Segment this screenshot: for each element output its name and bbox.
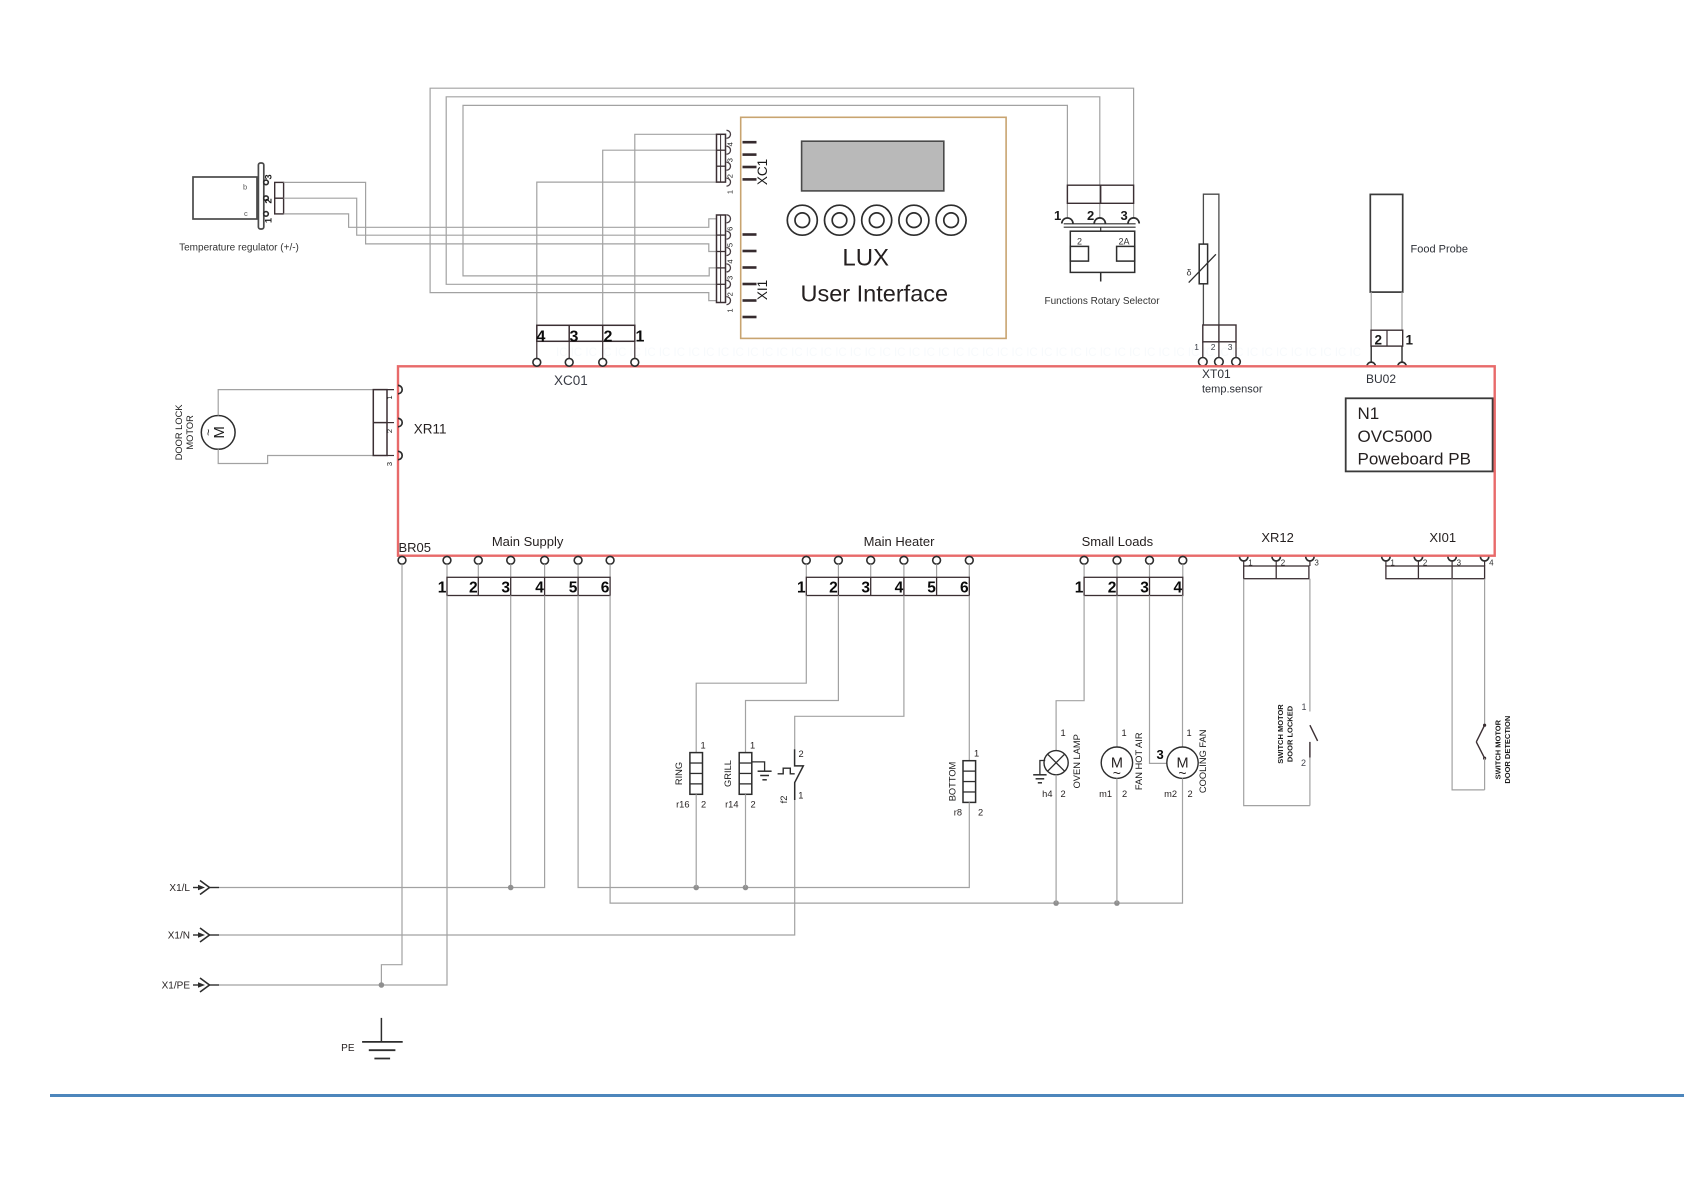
XI1 mating pin dash 4 (743, 283, 757, 286)
svg-text:3: 3 (1228, 342, 1233, 352)
svg-text:6: 6 (601, 579, 610, 596)
svg-text:FAN HOT AIR: FAN HOT AIR (1134, 732, 1144, 790)
XC01 pin 1 (631, 358, 639, 366)
svg-text:X1/L: X1/L (169, 883, 190, 894)
svg-text:XC01: XC01 (554, 373, 588, 388)
svg-text:4: 4 (535, 579, 544, 596)
wire X1/L to Main Supply pins 3,4 (219, 596, 545, 888)
XC1 pin 1 (726, 178, 735, 194)
Main Supply pin 3 stub (510, 564, 512, 577)
rotary selector pin 3 (1121, 208, 1140, 224)
food probe body (1370, 194, 1402, 292)
SWITCH MOTOR DOOR DETECTION caption (1494, 716, 1513, 784)
door lock motor M (201, 416, 235, 450)
XC01 pin 2 (599, 358, 607, 366)
fan hot air motor m1 (1101, 747, 1132, 781)
LUX button 1 (787, 205, 817, 235)
junction h4 neutral (1053, 900, 1059, 906)
svg-text:1: 1 (636, 329, 645, 346)
XI01 pin 4 (1480, 557, 1494, 568)
svg-text:1: 1 (438, 579, 447, 596)
svg-text:5: 5 (927, 579, 936, 596)
svg-text:5: 5 (726, 243, 735, 247)
svg-text:3: 3 (726, 276, 735, 280)
svg-text:6: 6 (960, 579, 969, 596)
door lock motor caption (174, 404, 195, 461)
XC01 pin 4 stub (536, 341, 538, 358)
svg-text:BU02: BU02 (1366, 372, 1396, 386)
wire XR12 pin1 down (1244, 579, 1310, 806)
XI1 pin 4 (726, 248, 735, 264)
Main Supply pin 1 (443, 556, 451, 564)
thermistor element (1187, 244, 1216, 284)
XT01 pin 3 (1232, 358, 1241, 367)
svg-text:2: 2 (1122, 789, 1127, 799)
svg-text:1: 1 (701, 741, 706, 751)
connector BU02 block (1371, 330, 1414, 347)
wire Main Heater pin1 to RING r16 (696, 596, 806, 753)
wire loop rotary-selector pin1 to XI1 pin3 (463, 105, 1067, 276)
svg-text:Main Supply: Main Supply (492, 534, 564, 549)
XC1 pin 2 (726, 162, 735, 178)
XR12 pin 2 (1272, 557, 1286, 568)
rotary selector pin 2 (1087, 208, 1105, 224)
wire Main Supply pin5 to heater returns (578, 596, 969, 888)
wire XI01 pin3 down (1452, 579, 1485, 790)
svg-text:3: 3 (264, 174, 275, 179)
N1 nameplate (1346, 398, 1493, 471)
switch motor door locked (1310, 725, 1318, 757)
wire Small Loads pin3 to m2 aux (1150, 596, 1167, 764)
svg-text:Temperature regulator (+/-): Temperature regulator (+/-) (179, 243, 299, 254)
Main Supply pin 5 (574, 556, 582, 564)
Small Loads pin 2 stub (1116, 564, 1118, 577)
wire Small Loads pin2 to fan motor m1 (1116, 596, 1118, 748)
temperature regulator pin 1 (264, 212, 275, 224)
rotary selector pin 1 (1054, 208, 1073, 224)
Small Loads terminal block (1084, 577, 1183, 595)
XC01 pin 3 stub (568, 341, 570, 358)
XI1 mating pin dash 6 (743, 316, 757, 319)
Main Heater pin 6 stub (968, 564, 970, 577)
XI1 pin 3 (726, 264, 735, 280)
temperature regulator pin 2 (264, 196, 275, 204)
svg-text:5: 5 (569, 579, 578, 596)
switch motor door detection (1476, 724, 1486, 760)
XI01 pin 2 stub (1417, 561, 1419, 566)
wire XC01 pin1 to XC1 pin4 (635, 134, 717, 325)
svg-text:3: 3 (861, 579, 870, 596)
Main Heater pin 5 (933, 556, 941, 564)
svg-text:2A: 2A (1119, 236, 1130, 246)
XI1 pin 1 (726, 297, 735, 313)
temp sensor body wires (1203, 194, 1219, 325)
powerboard N1 outline (398, 366, 1495, 555)
thermal cutoff f2 (778, 749, 804, 800)
XC01 pin 1 stub (634, 341, 636, 358)
svg-text:X1/N: X1/N (168, 931, 190, 942)
Main Supply pin 4 (541, 556, 549, 564)
svg-text:2: 2 (978, 808, 983, 818)
svg-text:m2: m2 (1164, 789, 1177, 799)
svg-text:User Interface: User Interface (801, 281, 949, 307)
wire Main Supply pin3 drop (510, 596, 512, 888)
wire loop rotary-selector pin3 to XI1 pin1 (430, 88, 1134, 300)
svg-text:2: 2 (1211, 342, 1216, 352)
wire Small Loads pin4 to cooling fan m2 (1182, 596, 1184, 748)
junction PE BR05 (379, 982, 385, 988)
svg-text:Food Probe: Food Probe (1411, 244, 1468, 256)
XC01 pin 4 (533, 358, 541, 366)
heater element GRILL r14 (739, 753, 752, 795)
svg-text:c: c (244, 209, 248, 218)
junction r14 return (743, 885, 749, 891)
Main Heater pin 3 (867, 556, 875, 564)
svg-text:2: 2 (1301, 758, 1306, 768)
svg-text:r14: r14 (725, 800, 738, 810)
wire XC01 pin2 to XC1 pin3 (603, 150, 717, 325)
LUX button 4 (899, 205, 929, 235)
wire switch to bottom link (1309, 758, 1311, 806)
Main Heater pin 4 stub (903, 564, 905, 577)
svg-text:COOLING FAN: COOLING FAN (1198, 730, 1208, 794)
Main Heater pin 2 stub (837, 564, 839, 577)
connector XT01 block (1194, 325, 1236, 358)
Small Loads pin 4 stub (1182, 564, 1184, 577)
Main Supply pin 2 (474, 556, 482, 564)
XR12 pin 3 (1306, 557, 1320, 568)
wire door lock motor to XR11 pin1 (218, 390, 394, 416)
svg-text:BR05: BR05 (399, 540, 432, 555)
Small Loads pin 1 stub (1083, 564, 1085, 577)
svg-text:RING: RING (674, 762, 684, 785)
wire Main Heater pin6 to BOTTOM r8 (968, 596, 970, 761)
XI1 mating pin dash 3 (743, 266, 757, 269)
BU02 pin 2 (1367, 362, 1375, 366)
XI1 mating pin dash 1 (743, 233, 757, 236)
connector XR11 block (373, 390, 394, 456)
svg-text:DOOR LOCKED: DOOR LOCKED (1286, 705, 1295, 762)
wire temp-reg pin2 to XI1 pin5 (284, 198, 717, 235)
Main Supply pin 2 stub (477, 564, 479, 577)
svg-text:OVEN LAMP: OVEN LAMP (1072, 734, 1082, 788)
wire X1/N to f2 (219, 800, 795, 935)
rotary selector shaft stub (1100, 272, 1102, 281)
Main Heater pin 4 (900, 556, 908, 564)
svg-text:N1: N1 (1358, 404, 1380, 423)
blue divider line (50, 1094, 1684, 1097)
svg-text:XR12: XR12 (1261, 530, 1294, 545)
oven lamp h4 (1044, 751, 1068, 775)
BR05 pin (398, 556, 406, 564)
LUX display (802, 141, 944, 191)
svg-text:SWITCH MOTOR: SWITCH MOTOR (1494, 719, 1503, 779)
svg-text:1: 1 (1054, 208, 1061, 223)
svg-text:4: 4 (1173, 579, 1182, 596)
Main Heater pin 5 stub (936, 564, 938, 577)
XC1 pin 4 (726, 130, 735, 146)
X1/PE arrow (162, 978, 219, 992)
svg-text:2: 2 (829, 579, 838, 596)
Main Supply terminal block (447, 577, 610, 595)
XI1 mating pin dash 5 (743, 299, 757, 302)
ground at oven lamp (1033, 761, 1046, 783)
Small Loads pin 3 stub (1149, 564, 1151, 577)
svg-text:1: 1 (1187, 728, 1192, 738)
XC1 mating pin dash 4 (743, 178, 757, 181)
XI01 pin 2 (1414, 557, 1428, 568)
junction X1/L pin3 (508, 885, 514, 891)
wire Main Heater pin2 to GRILL r14 (746, 596, 839, 753)
Small Loads pin 3 (1146, 556, 1154, 564)
svg-text:MOTOR: MOTOR (185, 415, 195, 450)
svg-text:Poweboard PB: Poweboard PB (1358, 450, 1471, 469)
svg-text:2: 2 (1108, 579, 1117, 596)
svg-text:1: 1 (264, 217, 275, 223)
LUX button 2 (825, 205, 855, 235)
Main Supply pin 6 stub (609, 564, 611, 577)
svg-text:DOOR LOCK: DOOR LOCK (174, 404, 184, 461)
connector XC01 block (537, 325, 645, 345)
svg-text:Functions Rotary Selector: Functions Rotary Selector (1044, 296, 1160, 307)
rotary selector cam block (1070, 231, 1134, 272)
svg-text:X1/PE: X1/PE (162, 981, 191, 992)
svg-text:DOOR DETECTION: DOOR DETECTION (1503, 716, 1512, 784)
svg-text:m1: m1 (1099, 789, 1112, 799)
svg-text:XC1: XC1 (755, 159, 770, 185)
svg-text:r16: r16 (676, 800, 689, 810)
svg-text:1: 1 (1406, 333, 1414, 348)
svg-text:BOTTOM: BOTTOM (948, 762, 958, 802)
XC01 pin 2 stub (602, 341, 604, 358)
svg-text:Small Loads: Small Loads (1082, 534, 1154, 549)
Small Loads pin 2 (1113, 556, 1121, 564)
Small Loads pin 1 (1080, 556, 1088, 564)
wire XR12 pin3 to switch (1309, 579, 1311, 712)
XC01 pin 3 (565, 358, 573, 366)
wire door lock motor to XR11 pin3 (218, 449, 373, 463)
svg-text:PE: PE (341, 1043, 355, 1054)
heater element BOTTOM r8 (963, 761, 976, 803)
cooling fan motor m2 (1167, 747, 1198, 781)
svg-text:3: 3 (1157, 747, 1164, 762)
XR11 pin 1 (385, 385, 402, 399)
X1/N arrow (168, 928, 219, 942)
svg-text:IC IC IC IC IC IC IC IC IC IC: IC IC IC IC IC IC IC IC IC IC IC IC IC I… (556, 347, 1361, 359)
wire BR05 to PE net (381, 564, 402, 985)
XI01 pin 3 (1448, 557, 1462, 568)
svg-text:2: 2 (469, 579, 478, 596)
svg-text:3: 3 (1140, 579, 1149, 596)
XI01 pin 1 stub (1385, 561, 1387, 566)
wire X1/PE to Main Supply pin1 (219, 596, 447, 986)
PE ground symbol (362, 1018, 403, 1059)
svg-text:4: 4 (726, 259, 735, 263)
svg-text:1: 1 (1061, 728, 1066, 738)
wire h4 pin2 drop (1055, 775, 1057, 903)
svg-text:1: 1 (798, 791, 803, 801)
svg-text:3: 3 (501, 579, 510, 596)
svg-text:1: 1 (750, 741, 755, 751)
svg-text:2: 2 (1188, 789, 1193, 799)
svg-text:M: M (211, 426, 228, 439)
temperature regulator connector block (275, 182, 284, 214)
svg-text:r8: r8 (954, 808, 962, 818)
connector XI1 body (717, 215, 726, 303)
wire detection switch to bottom link (1484, 758, 1486, 790)
rotary selector top block (1067, 185, 1133, 203)
Main Heater pin 6 (965, 556, 973, 564)
BU02 pin 1 (1398, 362, 1406, 366)
ground at GRILL (752, 762, 772, 780)
svg-text:2: 2 (751, 800, 756, 810)
XR12 pin 3 stub (1309, 561, 1311, 566)
Main Heater pin 1 stub (805, 564, 807, 577)
svg-text:XI1: XI1 (755, 280, 770, 300)
svg-text:XT01: XT01 (1202, 367, 1231, 381)
wire XC01 pin4 to XC1 pin1 (537, 182, 717, 325)
svg-text:1: 1 (797, 579, 806, 596)
XC1 mating pin dash 3 (743, 166, 757, 169)
svg-text:3: 3 (385, 462, 394, 466)
wire Small Loads pin1 to oven lamp h4 (1056, 596, 1084, 751)
XI1 pin 6 (726, 215, 735, 231)
Main Heater pin 3 stub (870, 564, 872, 577)
heater element RING r16 (690, 753, 703, 795)
XT01 pin 2 (1215, 358, 1224, 367)
wire Main Heater pin4 to f2 (795, 596, 904, 750)
XR12 pin 1 (1240, 557, 1254, 568)
svg-text:h4: h4 (1042, 789, 1052, 799)
svg-text:3: 3 (1314, 559, 1319, 568)
connector XC1 body (717, 134, 726, 182)
svg-text:temp.sensor: temp.sensor (1202, 384, 1263, 396)
XR12 terminal block (1244, 566, 1309, 579)
svg-text:4: 4 (537, 329, 546, 346)
LUX button 5 (936, 205, 966, 235)
svg-text:2: 2 (1087, 208, 1094, 223)
svg-text:XI01: XI01 (1429, 530, 1456, 545)
wire r14 pin2 drop (745, 794, 747, 887)
svg-text:1: 1 (974, 749, 979, 759)
XR11 pin 2 (385, 418, 402, 433)
Main Supply pin 6 (606, 556, 614, 564)
svg-text:1: 1 (1122, 728, 1127, 738)
XI01 pin 4 stub (1484, 561, 1486, 566)
svg-text:2: 2 (726, 292, 735, 296)
XR12 pin 1 stub (1243, 561, 1245, 566)
Main Supply pin 5 stub (577, 564, 579, 577)
svg-text:2: 2 (701, 800, 706, 810)
XR12 pin 2 stub (1275, 561, 1277, 566)
temperature regulator body (193, 163, 264, 229)
svg-text:6: 6 (726, 227, 735, 231)
svg-text:2: 2 (1061, 789, 1066, 799)
svg-text:4: 4 (1489, 559, 1494, 568)
BU02 pin 2 stub (1370, 346, 1372, 361)
LUX user interface outline (741, 117, 1006, 338)
wire food probe to BU02 pin1 (1401, 292, 1403, 330)
rotary selector wiper bus (1064, 224, 1136, 231)
Small Loads pin 4 (1179, 556, 1187, 564)
XI1 mating pin dash 2 (743, 250, 757, 253)
X1/L arrow (169, 881, 219, 895)
svg-text:OVC5000: OVC5000 (1358, 427, 1433, 446)
XT01 pin 1 (1199, 358, 1208, 367)
XC1 mating pin dash 1 (743, 141, 757, 144)
svg-text:2: 2 (264, 198, 275, 203)
svg-text:3: 3 (1121, 208, 1128, 223)
junction r16 return (693, 885, 699, 891)
wire food probe to BU02 pin2 (1370, 292, 1372, 330)
svg-text:2: 2 (1375, 333, 1383, 348)
Main Supply pin 1 stub (446, 564, 448, 577)
svg-text:2: 2 (799, 749, 804, 759)
LUX button 3 (862, 205, 892, 235)
Main Heater pin 1 (802, 556, 810, 564)
XI01 terminal block (1386, 566, 1485, 579)
svg-text:1: 1 (1194, 342, 1199, 352)
Main Supply pin 4 stub (544, 564, 546, 577)
wire m1 pin2 drop (1116, 778, 1118, 903)
svg-text:3: 3 (570, 329, 579, 346)
XI1 pin 2 (726, 280, 735, 296)
svg-text:δ: δ (1187, 268, 1192, 278)
BU02 pin 1 stub (1401, 346, 1403, 361)
svg-text:Main Heater: Main Heater (864, 534, 935, 549)
XI01 pin 1 (1382, 557, 1396, 568)
svg-text:1: 1 (385, 395, 394, 399)
svg-text:SWITCH MOTOR: SWITCH MOTOR (1276, 704, 1285, 764)
temperature regulator pin 3 (264, 174, 275, 184)
svg-text:2: 2 (1077, 236, 1082, 246)
svg-text:f2: f2 (779, 796, 789, 804)
XR11 pin 3 (385, 451, 402, 466)
wire temp-reg pin3 to XI1 pin4 (284, 182, 717, 251)
svg-text:2: 2 (604, 329, 613, 346)
svg-text:XR11: XR11 (414, 422, 447, 437)
wire XI01 pin4 to switch (1484, 579, 1486, 726)
XC1 pin 3 (726, 146, 735, 162)
svg-text:LUX: LUX (842, 245, 889, 272)
XI01 pin 3 stub (1451, 561, 1453, 566)
wire loop rotary-selector pin2 to XI1 pin2 (446, 97, 1100, 284)
svg-text:1: 1 (1075, 579, 1084, 596)
svg-text:b: b (243, 183, 247, 192)
svg-text:4: 4 (895, 579, 904, 596)
wire Main Supply pin6 neutral bus (610, 596, 1182, 904)
wire r16 pin2 drop (695, 794, 697, 887)
svg-text:1: 1 (726, 309, 735, 313)
svg-text:1: 1 (1301, 702, 1306, 712)
svg-text:GRILL: GRILL (723, 760, 733, 787)
XC1 mating pin dash 2 (743, 153, 757, 156)
Main Supply pin 3 (507, 556, 515, 564)
junction m1 neutral (1114, 900, 1120, 906)
Main Heater pin 2 (835, 556, 843, 564)
XI1 pin 5 (726, 231, 735, 247)
svg-text:1: 1 (726, 190, 735, 194)
svg-text:2: 2 (385, 429, 394, 433)
Main Heater terminal block (806, 577, 969, 595)
SWITCH MOTOR DOOR LOCKED caption (1276, 704, 1295, 764)
wire temp-reg pin1 to XI1 pin6 (284, 214, 717, 227)
